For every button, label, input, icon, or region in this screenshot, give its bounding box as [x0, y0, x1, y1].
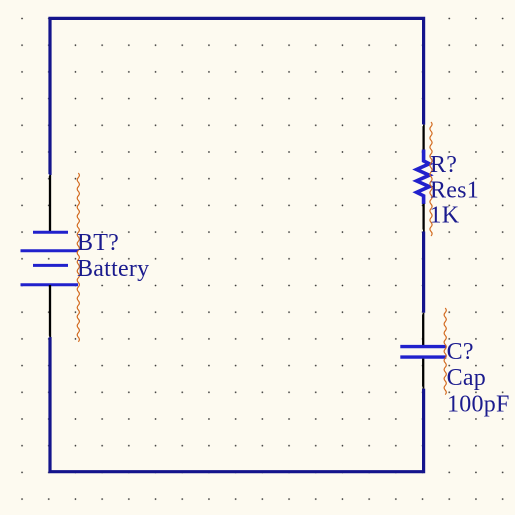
svg-text:1K: 1K [430, 202, 460, 228]
battery BT? pin 1 hotspot dot [47, 174, 49, 176]
capacitor C? plate bottom [400, 355, 446, 358]
resistor R? error marker squiggle [430, 122, 432, 236]
capacitor C? pin 1 [422, 313, 424, 345]
resistor R? pin 2 hotspot dot [421, 230, 423, 232]
svg-text:100pF: 100pF [447, 391, 510, 417]
battery BT? plate short lower [33, 264, 68, 267]
wire: left-top + top + right-top segment of loop [50, 18, 424, 175]
resistor R? pin 1 [422, 125, 424, 151]
resistor R? pin 1 hotspot dot [421, 124, 423, 126]
battery BT? plate long bottom [21, 283, 79, 286]
battery BT? plate short top [33, 231, 68, 234]
svg-text:Battery: Battery [77, 256, 149, 282]
battery BT? pin 2 hotspot dot [47, 336, 49, 338]
wire: right middle segment between resistor and capacitor [422, 232, 425, 313]
battery BT? plate long upper [21, 249, 79, 252]
capacitor C? pin 1 hotspot dot [421, 313, 423, 315]
battery BT? error marker squiggle [77, 173, 79, 342]
capacitor C? pin 2 [422, 359, 424, 389]
battery BT? pin 2 [49, 285, 51, 337]
svg-text:Res1: Res1 [430, 177, 479, 203]
svg-text:R?: R? [430, 152, 457, 178]
capacitor C? pin 2 hotspot dot [421, 387, 423, 389]
svg-text:BT?: BT? [77, 230, 119, 256]
resistor R? zigzag body [417, 150, 430, 205]
battery BT? pin 1 [49, 175, 51, 232]
capacitor C? error marker squiggle [444, 308, 446, 395]
svg-text:Cap: Cap [447, 365, 486, 391]
svg-text:C?: C? [447, 339, 474, 365]
wire: left-bottom + bottom + right-bottom segment of loop [50, 337, 424, 472]
capacitor C? plate top [400, 345, 446, 348]
resistor R? pin 2 [422, 204, 424, 232]
